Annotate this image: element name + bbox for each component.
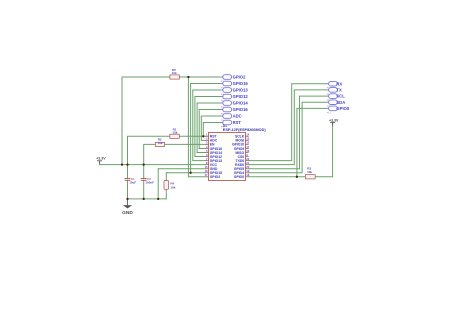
wire ADC row into module: [201, 139, 205, 141]
pin 2 ADC (left): [205, 137, 217, 143]
ground: [122, 205, 133, 216]
pin 9 CS0 (right): [238, 153, 249, 159]
power +3.3V left: [96, 157, 106, 165]
junction GPIO0 R3 node: [296, 176, 298, 178]
wire GPIO16 vertical: [198, 110, 200, 149]
wire GPIO5 vertical to SCL: [299, 96, 301, 169]
junction gnd rail GND pin: [157, 198, 159, 200]
svg-text:GPIO16: GPIO16: [233, 107, 249, 112]
svg-text:+3.3V: +3.3V: [329, 118, 339, 122]
wire R3 right: [315, 176, 332, 178]
wire GPIO12 vertical: [194, 97, 196, 157]
svg-text:GPIO2: GPIO2: [210, 175, 220, 179]
svg-text:+3.3V: +3.3V: [96, 157, 106, 161]
node GPIO16 header pin P6: [221, 107, 249, 115]
wire ground rail: [128, 198, 167, 200]
wire GPIO2 vertical: [187, 77, 189, 177]
node GPIO0 header pin P13: [326, 106, 349, 114]
resistor R3: [305, 167, 315, 179]
wire R4 top lead: [165, 173, 167, 181]
wire RST vertical: [202, 123, 204, 137]
pin 15 GND (left): [204, 165, 217, 171]
svg-text:GPIO13: GPIO13: [233, 88, 249, 93]
junction GPIO15 R4 node: [189, 172, 191, 174]
wire GPIO14 vertical: [196, 103, 198, 153]
wire C1 bottom lead: [127, 180, 129, 199]
wire GPIO13 oval to vertical: [193, 89, 221, 91]
wire SCL row: [300, 95, 327, 97]
wire GPIO0 row to R3: [249, 176, 306, 178]
wire GPIO16 row into module: [199, 147, 205, 149]
svg-text:100nF: 100nF: [145, 181, 154, 185]
pin 19 GPIO4 (right): [234, 169, 250, 175]
svg-text:SDA: SDA: [336, 100, 345, 105]
svg-text:10k: 10k: [158, 141, 163, 145]
wire GPIO15 vertical: [190, 84, 192, 173]
svg-text:GPIO14: GPIO14: [233, 101, 249, 106]
wire GPIO0 oval row: [297, 107, 327, 109]
svg-text:GPIO2: GPIO2: [233, 75, 246, 80]
junction rail R5 branch: [121, 163, 123, 165]
wire RST oval to vertical: [203, 122, 220, 124]
node GPIO14 header pin P5: [221, 101, 249, 109]
junction R5/GPIO2 node: [187, 76, 189, 78]
resistor R2: [155, 138, 164, 147]
node RX header pin P9: [326, 81, 342, 89]
pin 1 RST (left): [205, 133, 217, 139]
wire GPIO2 row into module: [188, 176, 205, 178]
node GPIO12 header pin P4: [221, 94, 249, 102]
svg-text:ADC: ADC: [233, 114, 242, 119]
svg-text:RST: RST: [233, 120, 242, 125]
pin 12 GPIO10 (right): [232, 141, 250, 147]
svg-text:10k: 10k: [172, 71, 177, 75]
wire R1 left horizontal: [128, 135, 170, 137]
pin 8 VCC (left): [205, 161, 217, 167]
svg-text:GPIO0: GPIO0: [234, 175, 244, 179]
node ADC header pin P7: [221, 114, 242, 122]
resistor R1: [170, 127, 179, 138]
wire rail up-branch to R5 row: [121, 77, 123, 165]
wire RXD0 row right: [249, 164, 295, 166]
svg-text:SCL: SCL: [336, 94, 345, 99]
capacitor C2: [141, 177, 154, 184]
wire ADC vertical: [200, 116, 202, 140]
wire GPIO16 oval to vertical: [199, 109, 220, 111]
node SDA header pin P12: [326, 100, 345, 108]
svg-text:GND: GND: [122, 210, 133, 216]
svg-text:10k: 10k: [307, 170, 312, 174]
wire C2 top lead: [143, 165, 145, 179]
pin 5 GPIO14 (left): [205, 149, 222, 155]
wire GPIO12 row into module: [195, 156, 206, 158]
op-amp U1 ESP-12F module body: [209, 124, 267, 180]
junction RST node: [202, 135, 204, 137]
pin 7 GPIO13 (left): [205, 157, 222, 163]
pin 14 SCLK (right): [235, 133, 250, 139]
svg-text:GPIO0: GPIO0: [336, 106, 349, 111]
wire GPIO4 row right: [249, 172, 303, 174]
wire TXD0 row right: [249, 160, 292, 162]
wire GPIO15 oval to vertical: [191, 83, 221, 85]
junction gnd rail C1: [126, 198, 128, 200]
wire GPIO15 row with R4 tap into module: [166, 172, 205, 174]
svg-text:17: 17: [204, 173, 208, 177]
pin 20 GPIO5 (right): [234, 165, 250, 171]
node GPIO15 header pin P2: [221, 81, 249, 89]
wire GPIO4 vertical to SDA: [301, 102, 303, 173]
pin 21 RXD0 (right): [235, 161, 250, 167]
node SCL header pin P11: [326, 94, 345, 102]
junction rail C1: [126, 163, 128, 165]
wire R2 right to EN pin: [165, 143, 206, 145]
capacitor C1: [125, 177, 137, 184]
svg-text:ESP-12F(ESP8266MOD): ESP-12F(ESP8266MOD): [223, 128, 267, 132]
wire +3.3V rail to VCC: [100, 164, 206, 166]
node TX header pin P10: [326, 88, 342, 96]
power +3.3V right: [329, 118, 339, 125]
resistor R4: [164, 181, 176, 190]
svg-text:RX: RX: [336, 81, 342, 86]
wire R3 up to +3.3V: [332, 122, 334, 177]
wire GPIO14 row into module: [197, 152, 205, 154]
pin 3 EN (left): [205, 141, 215, 147]
wire GPIO14 oval to vertical: [197, 102, 221, 104]
pin 13 MOSI (right): [236, 137, 250, 143]
wire GPIO13 row into module: [193, 160, 206, 162]
wire GPIO13 vertical: [192, 90, 194, 161]
svg-text:GPIO15: GPIO15: [233, 81, 249, 86]
wire to R5 left: [122, 76, 170, 78]
node GPIO13 header pin P3: [221, 88, 249, 96]
pin 18 GPIO0 (right): [234, 173, 250, 179]
wire C1 top lead: [127, 165, 129, 179]
pin 16 GPIO15 (left): [204, 169, 222, 175]
node RST header pin P8: [221, 120, 242, 128]
svg-text:10k: 10k: [170, 186, 175, 190]
junction gnd rail C2: [143, 198, 145, 200]
pin 10 MISO (right): [236, 149, 250, 155]
wire R1 drop to rail: [127, 136, 129, 164]
svg-text:10uF: 10uF: [129, 181, 136, 185]
wire R2 drop to rail: [143, 144, 145, 164]
wire GND pin drop: [157, 169, 159, 199]
wire R2 left horizontal: [144, 143, 156, 145]
pin 22 TXD0 (right): [236, 157, 250, 163]
svg-text:10k: 10k: [172, 131, 177, 135]
resistor R5: [170, 68, 179, 79]
pin 6 GPIO12 (left): [205, 153, 222, 159]
pin 11 GPIO9 (right): [234, 145, 250, 151]
wire GPIO12 oval to vertical: [195, 96, 221, 98]
wire R4 bottom lead: [165, 189, 167, 199]
svg-text:TX: TX: [336, 88, 342, 93]
wire GND pin horizontal: [158, 168, 205, 170]
junction rail C2: [143, 163, 145, 165]
wire C2 bottom lead: [143, 180, 145, 199]
wire TXD0 vertical to RX: [291, 84, 293, 161]
wire SDA row: [302, 101, 326, 103]
node GPIO2 header pin P1: [221, 75, 246, 83]
svg-text:GPIO12: GPIO12: [233, 94, 249, 99]
wire RX row: [292, 83, 327, 85]
pin 4 GPIO16 (left): [205, 145, 222, 151]
wire GPIO0 vertical: [296, 108, 298, 176]
wire R1 right to RST pin: [179, 135, 205, 137]
wire ground stem: [127, 199, 129, 205]
pin 17 GPIO2 (left): [204, 173, 220, 179]
wire ADC oval to vertical: [201, 115, 220, 117]
wire R5 right to GPIO2 pin oval: [179, 76, 220, 78]
wire GPIO5 row right: [249, 168, 300, 170]
wire RXD0 vertical to TX: [293, 90, 295, 165]
svg-text:18: 18: [246, 173, 250, 177]
wire TX row: [294, 89, 326, 91]
